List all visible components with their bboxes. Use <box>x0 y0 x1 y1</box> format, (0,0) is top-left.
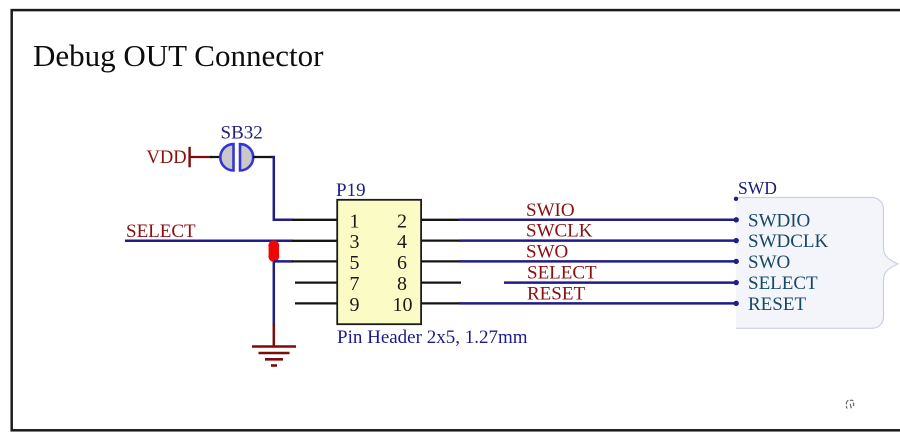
wire: pin 10 stub <box>422 302 462 304</box>
svg-text:SELECT: SELECT <box>748 273 818 294</box>
junction (red) <box>269 240 279 262</box>
wire: net SELECT <box>125 240 293 243</box>
wire: pin 1 stub <box>292 219 338 221</box>
svg-text:SB32: SB32 <box>221 123 263 144</box>
wire: pin 2 stub <box>422 219 462 221</box>
junction dot SELECT <box>734 280 739 285</box>
wire: pin 3 stub <box>292 240 338 242</box>
svg-text:SWDIO: SWDIO <box>748 210 810 231</box>
svg-text:SWIO: SWIO <box>526 200 575 221</box>
wire: ground lead <box>273 324 276 346</box>
junction dot SWDIO <box>734 217 739 222</box>
svg-text:SELECT: SELECT <box>126 221 196 242</box>
pin numbers 1,3,5,7,9 <box>350 210 360 316</box>
svg-text:2: 2 <box>397 210 407 232</box>
svg-text:SWD: SWD <box>738 178 777 198</box>
wire: pin 9 stub <box>295 302 338 304</box>
wire: to pin 5 <box>274 260 293 263</box>
ground <box>252 347 296 366</box>
wire: net SWO <box>459 260 736 263</box>
svg-text:Pin Header 2x5, 1.27mm: Pin Header 2x5, 1.27mm <box>337 327 528 348</box>
svg-text:Debug OUT Connector: Debug OUT Connector <box>33 38 324 73</box>
harness SWD body <box>736 198 898 329</box>
wire: SB32 to pin 1 (net VDD) <box>272 157 294 220</box>
svg-text:8: 8 <box>397 273 407 295</box>
wire: net SWIO <box>459 219 736 222</box>
svg-text:SWDCLK: SWDCLK <box>748 231 829 252</box>
svg-text:SWCLK: SWCLK <box>526 221 593 242</box>
svg-text:SWO: SWO <box>526 242 568 263</box>
connector P19 body <box>337 200 421 324</box>
wire: SB32 left pin stub <box>210 156 221 158</box>
junction dot SWDCLK <box>734 238 739 243</box>
solder bridge SB32 <box>220 144 253 170</box>
wire: junction down to ground <box>273 241 276 326</box>
wire: SB32 right pin stub <box>253 156 272 158</box>
wire: pin 6 stub <box>422 260 462 262</box>
svg-text:RESET: RESET <box>527 284 585 305</box>
wire: pin 7 stub <box>295 281 338 283</box>
svg-text:SWO: SWO <box>748 252 790 273</box>
svg-text:5: 5 <box>350 252 360 274</box>
svg-text:10: 10 <box>393 294 413 316</box>
svg-text:SELECT: SELECT <box>527 263 597 284</box>
pin numbers 2,4,6,8,10 <box>393 210 413 316</box>
junction dot SWO <box>734 259 739 264</box>
svg-text:RESET: RESET <box>748 294 806 315</box>
svg-text:6: 6 <box>397 252 407 274</box>
wire: net RESET <box>459 302 736 305</box>
svg-text:4: 4 <box>397 231 407 253</box>
port VDD <box>147 147 213 168</box>
svg-text:P19: P19 <box>336 180 366 201</box>
svg-text:VDD: VDD <box>147 148 187 168</box>
wire: pin 5 stub <box>292 260 338 262</box>
svg-text:3: 3 <box>350 231 360 253</box>
junction dot SWD <box>734 197 738 201</box>
svg-text:1: 1 <box>350 210 360 232</box>
svg-text:9: 9 <box>350 294 360 316</box>
wire: pin 8 stub <box>422 281 462 283</box>
wire: pin 4 stub <box>422 239 462 241</box>
svg-text:7: 7 <box>350 273 360 295</box>
wire: net SWCLK <box>459 239 736 242</box>
watermark cursor <box>846 400 853 408</box>
junction dot RESET <box>734 301 739 306</box>
wire: net SELECT (right) <box>504 281 736 284</box>
